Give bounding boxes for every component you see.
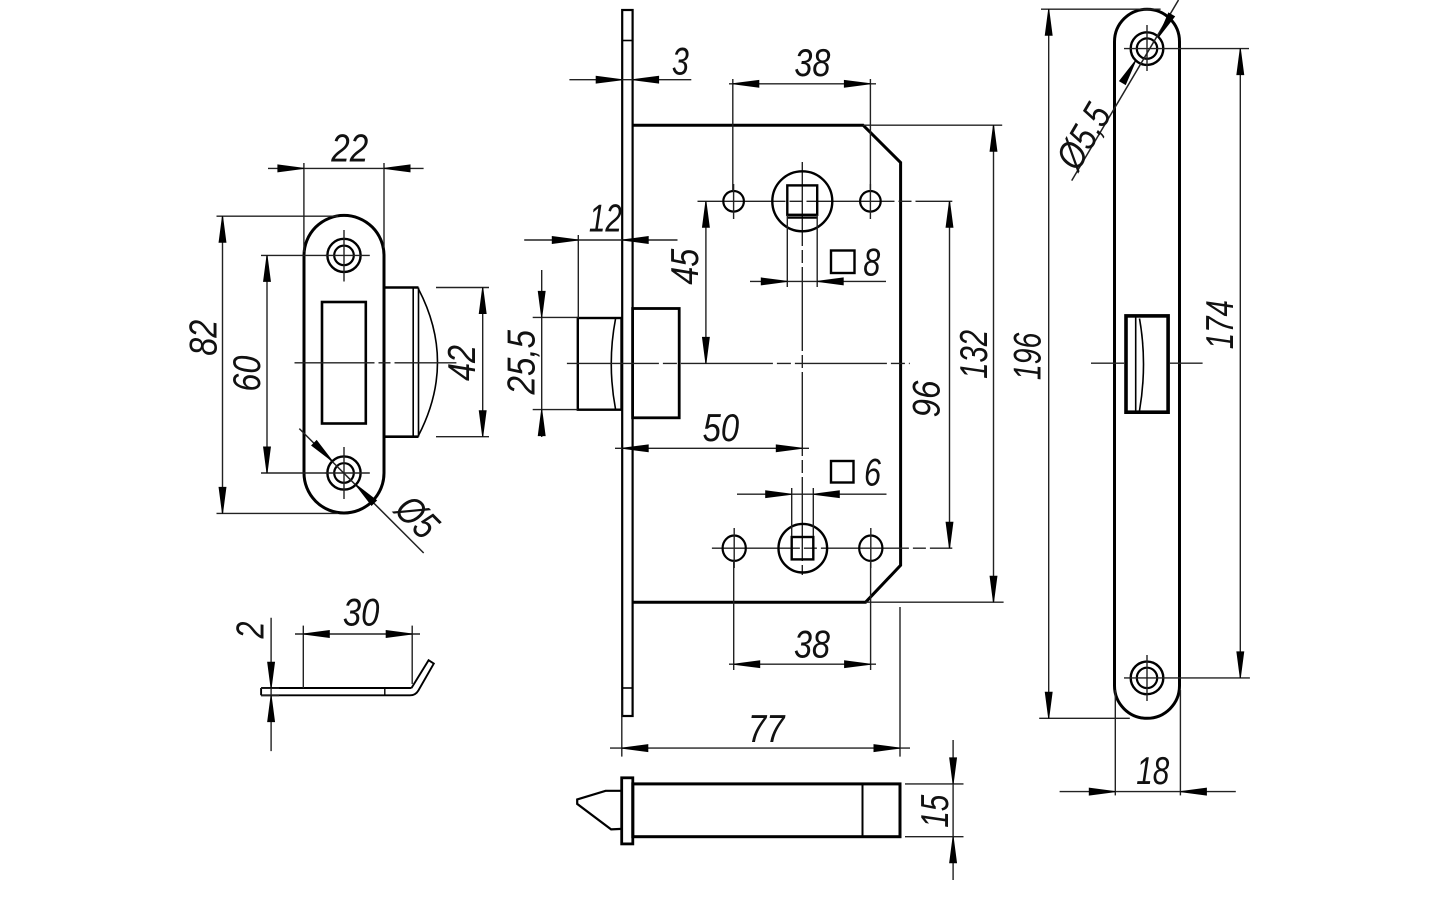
top left screw post [723, 191, 744, 212]
dim 50 line [615, 447, 809, 449]
dim 77 line [610, 747, 910, 749]
top screw hole centerlines [1124, 25, 1249, 71]
bottom left screw post [723, 536, 746, 561]
svg-text:196: 196 [1006, 332, 1049, 380]
top screw hole [327, 239, 360, 272]
dim 30 line [295, 633, 420, 635]
top right screw post [860, 191, 881, 212]
lock case bottom view [633, 784, 900, 837]
bottom screw hole [327, 456, 360, 489]
dim 6 square symbol [831, 461, 854, 483]
svg-text:96: 96 [905, 380, 948, 417]
svg-text:2: 2 [230, 621, 273, 639]
dim 8 extension lines [787, 215, 817, 287]
svg-text:60: 60 [226, 355, 269, 391]
top spindle hub [772, 171, 832, 231]
faceplate strip top tick [622, 40, 632, 42]
dim 22 line [268, 167, 424, 169]
bend tangent tick [384, 688, 386, 695]
svg-text:30: 30 [343, 592, 380, 635]
dim 82 extension lines [217, 216, 339, 513]
latch bolt front view [578, 318, 622, 410]
dim 6 extension lines [792, 488, 814, 536]
svg-text:3: 3 [672, 41, 689, 84]
dim 30 extension lines [303, 626, 412, 689]
hub vertical centerline [801, 162, 803, 575]
dim 2 extension ticks [261, 688, 279, 695]
lock case outline [633, 125, 901, 602]
faceplate edge strip [622, 10, 632, 716]
svg-text:77: 77 [748, 708, 786, 751]
bottom right screw post [859, 536, 882, 561]
bent lip inner vertical [412, 288, 414, 437]
dim 8 square symbol [831, 251, 855, 274]
top spindle square [787, 185, 817, 214]
dim 3 line [569, 79, 691, 81]
strike plate latch hole [322, 302, 366, 424]
dim 12 line [524, 239, 677, 241]
dim 15 line [952, 740, 954, 880]
main horizontal centerline [567, 362, 910, 364]
svg-text:132: 132 [953, 330, 996, 379]
svg-text:38: 38 [794, 624, 830, 667]
svg-text:174: 174 [1199, 300, 1242, 349]
bottom spindle square [792, 537, 814, 559]
dim 96 line [949, 201, 951, 548]
diameter 5 leader line [299, 429, 423, 553]
dim 60 line [266, 255, 268, 473]
svg-text:6: 6 [864, 452, 881, 495]
svg-text:38: 38 [794, 42, 830, 85]
faceplate bar bottom view [622, 778, 633, 844]
svg-text:42: 42 [441, 345, 484, 381]
latch bolt wedge bottom view [577, 791, 622, 830]
top spindle follower line [787, 216, 817, 218]
svg-text:18: 18 [1136, 750, 1169, 793]
dim 132 line [993, 125, 995, 602]
strike plate body [304, 215, 384, 513]
diameter 5,5 leader line [1072, 0, 1179, 181]
faceplate horizontal centerline right tick [1170, 362, 1203, 364]
bottom screw hole centerlines [326, 447, 370, 499]
svg-text:12: 12 [589, 198, 622, 241]
bent lip top edge [384, 286, 419, 289]
dim 196 extension lines [1039, 9, 1160, 718]
dim 38 bottom line [729, 663, 876, 665]
svg-text:15: 15 [914, 795, 957, 828]
svg-text:45: 45 [664, 248, 707, 284]
bottom hubs horizontal centerline [712, 547, 952, 549]
latch housing box [633, 309, 680, 418]
dim 60 extension lines [261, 255, 327, 473]
dim 15 extension lines [905, 784, 964, 837]
dim 174 line [1239, 49, 1241, 678]
top screw hole [1131, 32, 1164, 65]
bottom spindle hub [779, 524, 828, 573]
dim 8 line [750, 280, 886, 282]
top screw hole centerlines [326, 230, 370, 282]
svg-text:82: 82 [183, 320, 226, 356]
dim 22 extension lines [304, 163, 384, 252]
dim 45 line [705, 201, 707, 363]
dim 38 bottom extension lines [734, 561, 871, 670]
faceplate body [1115, 9, 1180, 718]
dim 38 top line [729, 83, 876, 85]
dim 2 line [270, 618, 272, 751]
top hubs horizontal centerline [698, 200, 953, 202]
latch bolt curved face [1140, 319, 1144, 411]
svg-text:8: 8 [863, 242, 880, 285]
dim 25,5 extension lines [533, 317, 578, 409]
dim 82 line [222, 216, 224, 514]
bottom screw hole [1131, 662, 1164, 695]
dim 12 extension line [577, 235, 579, 318]
dim 196 line [1048, 9, 1050, 718]
dim 18 extension lines [1115, 690, 1180, 795]
dim 42 extension lines [436, 288, 489, 437]
bent lip outer vertical [418, 288, 420, 437]
bent lip bottom edge [384, 435, 419, 438]
dim 25,5 line [541, 270, 543, 437]
bottom screw hole centerlines [1124, 655, 1250, 701]
svg-text:22: 22 [330, 128, 368, 171]
bent plate bar [261, 688, 411, 695]
bent tab hook [410, 660, 434, 695]
svg-text:50: 50 [703, 407, 740, 450]
faceplate horizontal centerline left tick [1091, 362, 1124, 364]
dim 77 extension lines [622, 607, 900, 757]
bent lip curved face [419, 289, 438, 436]
faceplate strip bottom tick [622, 687, 632, 689]
dim 42 line [482, 288, 484, 437]
svg-text:25,5: 25,5 [501, 330, 544, 396]
dim 6 line [737, 493, 887, 495]
latch bolt inner edge [1135, 318, 1137, 412]
faceplate latch window [1126, 316, 1168, 412]
dim 132 extension lines [863, 125, 1004, 602]
plate horizontal centerline [295, 362, 457, 364]
dim 18 line [1060, 791, 1236, 793]
latch bolt curved face [611, 319, 615, 409]
dim 38 top extension lines [733, 79, 871, 191]
case rear divider [862, 784, 864, 837]
